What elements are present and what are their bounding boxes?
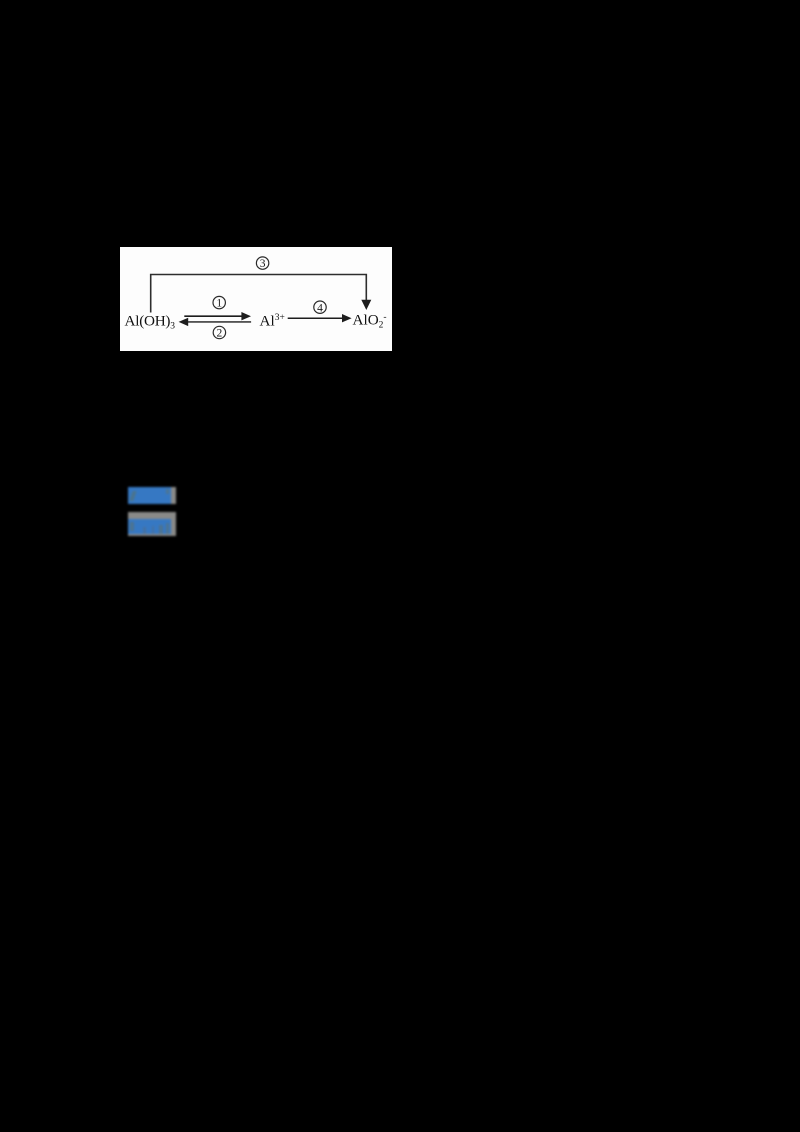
svg-text:AlO2-: AlO2-: [353, 312, 387, 331]
button 1 (blue answer button thumbnail): [128, 487, 176, 504]
arrow 2 (reverse, left): [186, 321, 251, 323]
svg-text:2: 2: [217, 328, 223, 340]
circled 1 label: [213, 296, 225, 308]
circled 2 label: [213, 326, 225, 338]
white diagram panel: [120, 247, 392, 351]
circled 4 label: [314, 301, 326, 313]
svg-text:4: 4: [317, 302, 323, 314]
arrow 1 (forward, right): [184, 315, 243, 317]
wire: top bracket path 3 (Al(OH)3 to AlO2-): [151, 275, 367, 313]
button 2 (blue analysis button thumbnail): [128, 512, 176, 536]
arrow 4 (Al3+ to AlO2-): [288, 317, 345, 319]
svg-text:Al(OH)3: Al(OH)3: [125, 313, 176, 332]
svg-text:1: 1: [216, 298, 222, 310]
arrowhead down into AlO2-: [362, 300, 370, 309]
circled 3 label: [256, 257, 268, 269]
svg-text:Al3+: Al3+: [260, 313, 285, 330]
svg-text:3: 3: [260, 258, 266, 270]
